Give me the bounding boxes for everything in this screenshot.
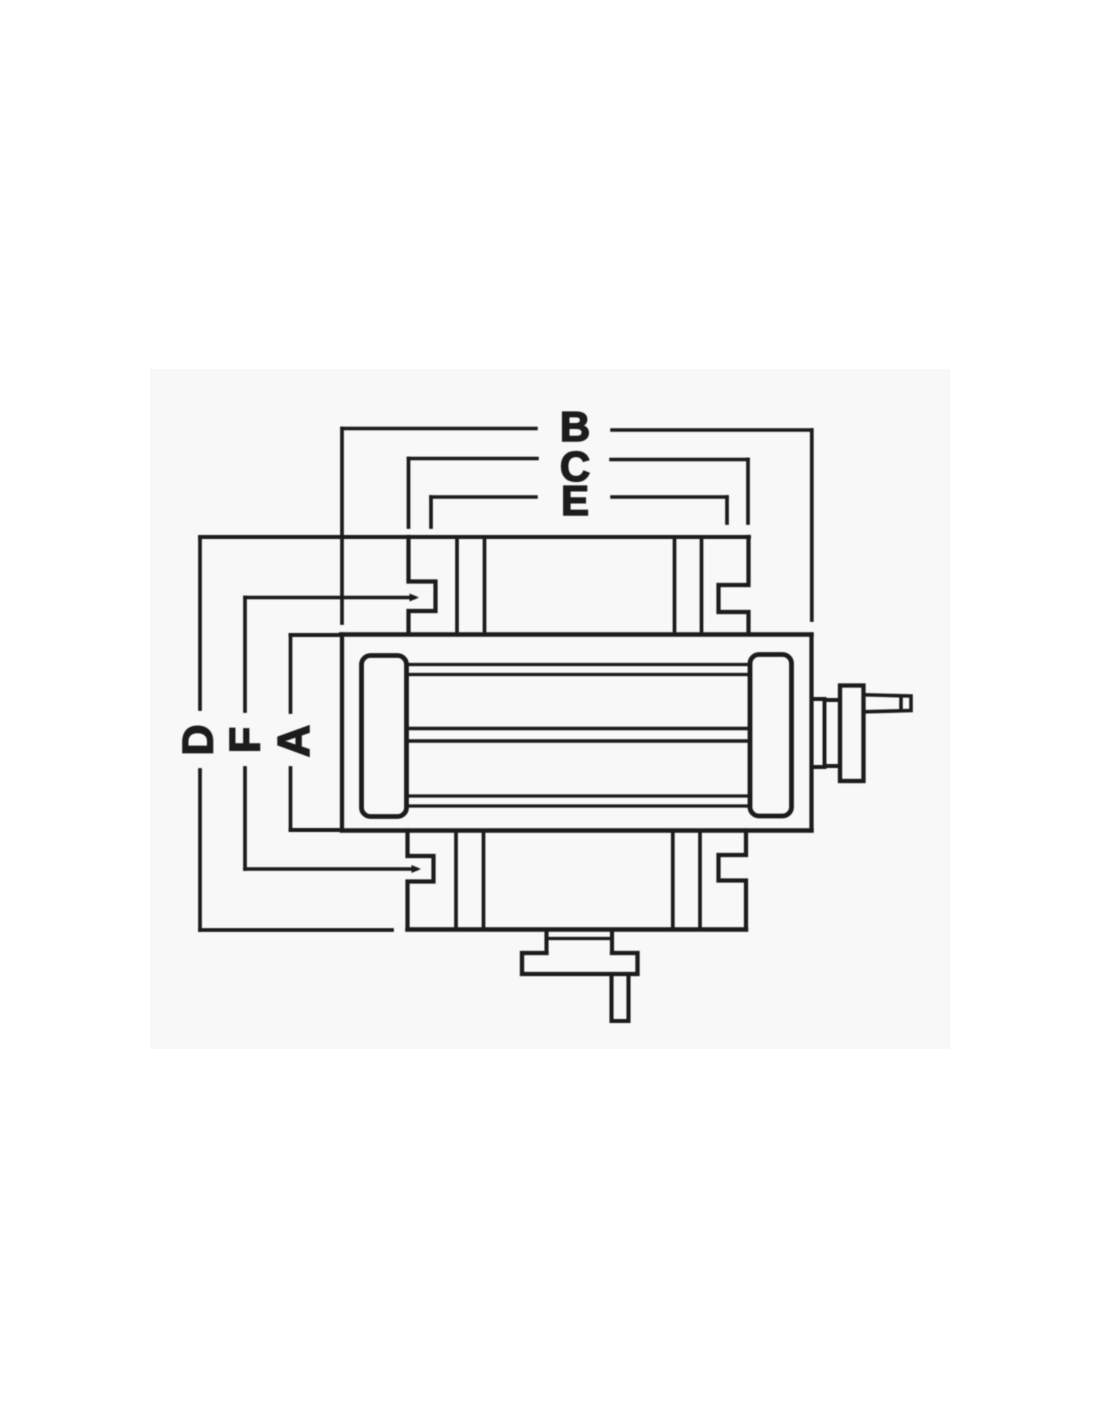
dimension F vertical upper (243, 598, 247, 712)
pedestal stem (612, 974, 629, 1021)
saddle right edge (809, 635, 813, 831)
leadscrew middle pair (407, 729, 750, 742)
bottom block internal vertical lines (456, 831, 700, 930)
dimension B horizontal left (342, 427, 536, 431)
dimension A vertical upper (289, 635, 293, 712)
dimension C right extension line (746, 460, 750, 524)
dimension C horizontal left (409, 457, 538, 461)
dimension B left extension line (340, 429, 344, 624)
right bearing block (750, 655, 792, 817)
crank spacer rectangles (812, 699, 841, 767)
dimension F top leader (245, 596, 414, 600)
bottom block bottom edge (408, 927, 747, 931)
dimension F vertical lower (243, 768, 247, 869)
saddle bottom edge (342, 828, 812, 832)
dimension F bottom leader arrowhead (412, 865, 422, 873)
crank knob (840, 686, 864, 782)
pedestal neck inner line (547, 937, 613, 940)
svg-text:D: D (174, 724, 222, 755)
dimension E left extension line (429, 497, 433, 527)
dimension C horizontal right (611, 458, 748, 462)
dimension D vertical lower (198, 770, 202, 930)
svg-text:F: F (221, 727, 269, 753)
pedestal neck (547, 930, 613, 954)
dimension F top leader arrowhead (410, 594, 420, 602)
dimension A top horizontal (291, 633, 342, 637)
dimension B horizontal right (612, 428, 812, 432)
table top block outline with tee slots (409, 537, 749, 634)
svg-text:E: E (561, 477, 589, 524)
dimension A bottom horizontal (291, 828, 339, 832)
table top block internal vertical lines (457, 537, 702, 634)
dimension A vertical lower (289, 768, 293, 830)
dimension E right extension line (725, 497, 729, 523)
dimension E horizontal right (612, 495, 727, 499)
scan background area (150, 369, 950, 1049)
dimension D vertical upper (198, 537, 202, 709)
svg-text:A: A (268, 725, 319, 758)
crank handle bar (864, 695, 912, 712)
slide ways lower pair (407, 796, 750, 806)
dimension E horizontal left (431, 495, 536, 499)
slide ways upper pair (407, 665, 750, 675)
bottom block outline with tee slots (408, 831, 747, 930)
pedestal flange (522, 953, 638, 974)
dimension D top horizontal merged with table top edge (200, 535, 749, 539)
dimension D bottom horizontal (200, 928, 392, 932)
dimension C left extension line (407, 459, 411, 528)
dimension B right extension line (810, 430, 814, 620)
saddle left edge (340, 635, 344, 831)
saddle top edge (341, 632, 812, 636)
left bearing block (362, 656, 407, 817)
dimension F bottom leader (245, 867, 416, 871)
